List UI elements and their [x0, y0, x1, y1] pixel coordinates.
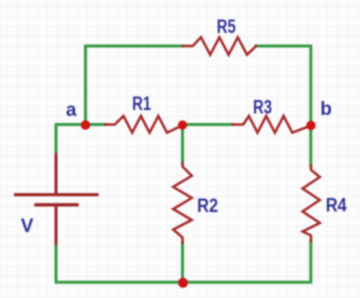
wire R2 bottom to bottom node — [181, 243, 184, 283]
resistor R3 — [233, 116, 312, 133]
wire middle node to R3 — [183, 123, 233, 126]
wire node a to R1 — [86, 123, 106, 126]
svg-text:R3: R3 — [253, 97, 272, 118]
node b junction dot — [306, 121, 315, 130]
battery V long plate — [16, 193, 98, 196]
node a junction dot — [81, 120, 90, 129]
wire node a up and top-left rail to R5 — [86, 46, 184, 125]
resistor R5 — [183, 37, 256, 54]
middle node junction dot — [178, 120, 187, 129]
svg-text:R2: R2 — [197, 196, 218, 217]
wire middle node to R2 top — [181, 125, 184, 163]
wire node a to battery top (left branch) — [56, 125, 86, 156]
battery V bottom lead — [55, 207, 58, 244]
battery V top lead — [55, 155, 58, 194]
wire battery bottom, bottom rail, up to R4 bottom — [56, 241, 311, 283]
svg-text:R5: R5 — [217, 17, 236, 38]
battery V short plate — [36, 203, 77, 206]
svg-text:V: V — [21, 216, 34, 237]
svg-text:a: a — [66, 100, 77, 121]
resistor R1 — [105, 116, 182, 133]
bottom node junction dot — [178, 278, 188, 288]
svg-text:R4: R4 — [326, 195, 347, 216]
resistor R4 — [303, 166, 320, 241]
svg-text:b: b — [320, 99, 332, 120]
resistor R2 — [173, 163, 192, 243]
wire R5 to top-right corner down to R4 top — [256, 46, 311, 166]
svg-text:R1: R1 — [132, 94, 151, 115]
